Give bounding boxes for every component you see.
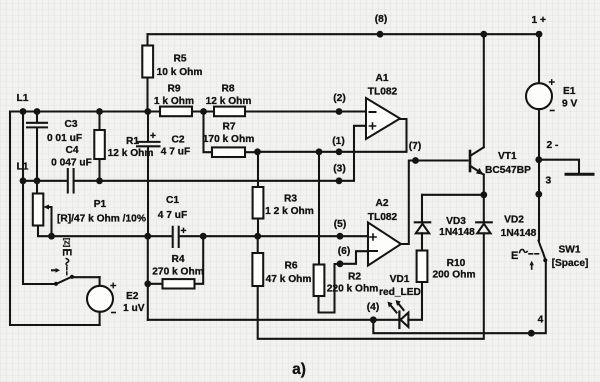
svg-text:9 V: 9 V (562, 99, 577, 110)
svg-text:220 k Ohm: 220 k Ohm (327, 284, 379, 295)
svg-text:1 2 k Ohm: 1 2 k Ohm (265, 206, 314, 217)
svg-text:10 k Ohm: 10 k Ohm (157, 67, 203, 78)
node 4 marker dot (528, 330, 535, 337)
capacitor C1 (173, 227, 179, 247)
resistor R8 (214, 107, 245, 117)
svg-text:[R]/47 k Ohm /10%: [R]/47 k Ohm /10% (57, 214, 146, 225)
svg-text:E: E (60, 248, 72, 256)
node R5-C2 dot (144, 108, 151, 115)
resistor R1 (98, 112, 100, 181)
svg-text:P1: P1 (94, 199, 107, 210)
node L1 top dot (20, 108, 27, 115)
svg-text:L1: L1 (17, 162, 29, 173)
wire net4 to bottom (373, 261, 546, 333)
capacitor C2 (137, 112, 160, 237)
svg-text:TL082: TL082 (368, 87, 398, 98)
svg-text:+: + (150, 131, 156, 142)
svg-text:0 01 uF: 0 01 uF (47, 133, 82, 144)
svg-text:[Space]: [Space] (552, 258, 589, 269)
svg-text:1 uV: 1 uV (123, 303, 145, 314)
svg-text:0 047 uF: 0 047 uF (51, 158, 92, 169)
node C1-R4 dot (200, 233, 207, 240)
node emitter dot (480, 191, 487, 198)
svg-text:C3: C3 (64, 119, 77, 130)
svg-text:(5): (5) (334, 219, 346, 230)
svg-text:(8): (8) (375, 14, 387, 25)
svg-text:1 k Ohm: 1 k Ohm (154, 96, 194, 107)
svg-text:a): a) (292, 361, 306, 378)
wire emitter node y194.8 (422, 194, 484, 196)
node R7-R3 dot (254, 148, 261, 155)
svg-text:VD2: VD2 (504, 215, 524, 226)
LED VD1 (398, 312, 400, 329)
svg-text:R6: R6 (284, 261, 297, 272)
resistor R7 (204, 112, 258, 153)
svg-text:R1: R1 (126, 136, 139, 147)
wire left border loop (10, 112, 100, 326)
node (6) dot (337, 260, 344, 267)
svg-text:1N4148: 1N4148 (501, 228, 537, 239)
resistor R2 (318, 152, 320, 265)
wire net4 rail y319.8 (148, 319, 400, 321)
resistor R5 (146, 34, 148, 111)
svg-text:4 7 uF: 4 7 uF (158, 210, 187, 221)
wire input net y111 (10, 110, 366, 112)
svg-text:[Z]: [Z] (63, 238, 72, 247)
node SW1 tip dot (543, 258, 547, 262)
node (7) dot (412, 157, 419, 164)
svg-text:1N4148: 1N4148 (439, 227, 475, 238)
svg-text:E1: E1 (563, 86, 576, 97)
svg-text:200 Ohm: 200 Ohm (432, 270, 475, 281)
svg-text:(1): (1) (332, 136, 344, 147)
svg-text:170 k Ohm: 170 k Ohm (203, 134, 255, 145)
svg-text:12 k Ohm: 12 k Ohm (108, 148, 154, 159)
node 2 dot (535, 156, 542, 163)
svg-text:R7: R7 (222, 122, 235, 133)
wire top supply rail (8)-1 (148, 33, 540, 35)
svg-text:BC547BP: BC547BP (485, 165, 531, 176)
svg-text:E: E (511, 250, 518, 262)
node C3-P1 dot (34, 177, 41, 184)
node R3-R6 dot (254, 233, 261, 240)
svg-text:R10: R10 (447, 258, 466, 269)
op-amp A1 (366, 98, 400, 139)
node R1 bottom dot (96, 177, 103, 184)
node (8) dot (377, 31, 384, 38)
resistor R6 (258, 233, 484, 338)
node R4 left dot (144, 280, 151, 287)
svg-text:A1: A1 (375, 73, 388, 84)
svg-text:L1: L1 (17, 93, 29, 104)
key switch Z (23, 283, 56, 285)
svg-text:R3: R3 (284, 194, 297, 205)
wire A1 plus input to net3 (339, 126, 366, 181)
svg-text:+: + (181, 226, 187, 237)
ground (539, 160, 579, 174)
resistor R3 (257, 152, 259, 236)
node C3 top dot (34, 108, 41, 115)
svg-text:(4): (4) (367, 302, 379, 313)
svg-text:C4: C4 (65, 145, 78, 156)
svg-text:4: 4 (538, 315, 544, 326)
node (3) dot (336, 177, 343, 184)
svg-text:VD3: VD3 (446, 216, 466, 227)
node R1 top dot (96, 108, 103, 115)
svg-text:(2): (2) (333, 93, 345, 104)
node key pivot dot (54, 282, 58, 286)
svg-text:1 +: 1 + (532, 15, 546, 26)
wire net1 feedback y151.8 (258, 119, 407, 152)
svg-text:VT1: VT1 (498, 151, 517, 162)
node (5) dot (337, 233, 344, 240)
svg-text:SW1: SW1 (558, 245, 580, 256)
potentiometer P1 (36, 181, 38, 194)
node R2 top dot (316, 148, 323, 155)
resistor R10 (417, 251, 428, 283)
inductor L1 (22, 112, 24, 181)
resistor R9 (160, 107, 192, 117)
battery E1 (538, 34, 540, 83)
resistor R4 (148, 236, 203, 320)
node (4) dot (370, 316, 377, 323)
svg-text:(3): (3) (333, 164, 345, 175)
node L1 bottom dot (20, 177, 27, 184)
node P1 bottom dot (48, 233, 55, 240)
svg-text:A2: A2 (375, 198, 388, 209)
node 3 marker dot (535, 191, 542, 198)
switch SW1 (539, 241, 546, 260)
svg-text:270 k Ohm: 270 k Ohm (152, 267, 204, 278)
svg-text:(6): (6) (338, 246, 350, 257)
svg-text:4 7 uF: 4 7 uF (161, 147, 190, 158)
node collector-rail dot (480, 31, 487, 38)
svg-text:red_LED: red_LED (379, 287, 421, 298)
svg-text:C1: C1 (166, 195, 179, 206)
wire net5 y236 (52, 235, 369, 237)
svg-text:2 -: 2 - (547, 140, 559, 151)
svg-text:R2: R2 (348, 272, 361, 283)
node key tip dot (70, 275, 74, 279)
svg-text:C2: C2 (171, 135, 184, 146)
svg-text:R8: R8 (221, 84, 234, 95)
svg-text:TL082: TL082 (368, 212, 398, 223)
wire A2 output to net7 (401, 161, 468, 245)
node rail-E1 dot (536, 31, 543, 38)
capacitor C4 (68, 169, 74, 193)
svg-text:12 k Ohm: 12 k Ohm (206, 96, 252, 107)
svg-text:VD1: VD1 (390, 274, 410, 285)
op-amp A2 (368, 223, 401, 266)
node C2-R4 dot (144, 233, 151, 240)
diode VD2 (483, 195, 485, 223)
svg-text:3: 3 (546, 176, 552, 187)
node (2) dot (336, 108, 343, 115)
svg-text:R9: R9 (167, 84, 180, 95)
diode VD3 (421, 195, 423, 223)
source E2 (99, 277, 101, 286)
transistor VT1 (469, 151, 472, 171)
wire L1 to key (22, 181, 24, 284)
svg-text:R4: R4 (171, 254, 184, 265)
node R9-R8 junction dot (200, 108, 207, 115)
wire net6 into A2 minus (340, 251, 368, 264)
svg-text:(7): (7) (409, 141, 421, 152)
node (1) dot (336, 148, 343, 155)
capacitor C3 (27, 112, 47, 181)
svg-text:R5: R5 (173, 54, 186, 65)
svg-text:E2: E2 (126, 291, 139, 302)
svg-text:47 k Ohm: 47 k Ohm (266, 274, 312, 285)
wire net3 horizontal y180.8 (23, 180, 339, 182)
